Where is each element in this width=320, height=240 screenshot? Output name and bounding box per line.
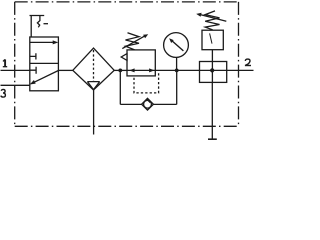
node 3 <box>1 89 6 97</box>
regulator R1 body <box>127 50 155 76</box>
enclosure border <box>15 1 239 3</box>
regulator R1 spring <box>126 33 140 50</box>
wire valve to filter <box>58 69 72 71</box>
block B1 <box>200 62 227 83</box>
valve V1 bottom position exhaust path <box>33 71 58 83</box>
regulator R1 adjustment arrow <box>122 36 145 49</box>
wire port 1 <box>1 69 30 71</box>
wire regulator to block <box>155 69 226 71</box>
node 1 <box>3 59 7 66</box>
wire bypass bottom right <box>153 103 176 105</box>
regulator R1 flow line <box>127 69 155 71</box>
filter F1 separator <box>87 82 99 90</box>
wire branch down from J1 <box>119 70 121 104</box>
wire port 3 <box>1 84 30 86</box>
valve V1 top position flow arrow <box>30 41 55 43</box>
node J1 <box>118 69 122 73</box>
pressure switch S1 stem <box>211 50 213 83</box>
filter F1 drain wire <box>93 90 95 135</box>
valve V1 body <box>30 37 59 91</box>
valve V1 top position blocked port <box>30 53 36 59</box>
gauge G1 <box>164 33 189 58</box>
wire filter to regulator <box>114 69 127 71</box>
exhaust end bar <box>208 138 217 140</box>
drain valve D1 <box>142 98 154 110</box>
pressure switch S1 adjustment arrow <box>201 15 227 21</box>
pressure switch S1 spring <box>205 11 219 30</box>
pressure switch S1 contact <box>210 33 212 43</box>
regulator R1 vent <box>121 54 127 61</box>
node J2 <box>175 69 179 73</box>
node J3 <box>210 68 214 72</box>
filter F1 body <box>73 48 114 90</box>
wire bypass riser <box>176 70 178 104</box>
filter F1 element <box>93 50 95 81</box>
node 2 <box>245 59 251 65</box>
wire bypass bottom left <box>120 103 141 105</box>
valve V1 bottom position blocked port <box>30 67 36 74</box>
gauge G1 stem <box>176 57 178 70</box>
valve V1 detent <box>37 16 40 28</box>
pressure switch S1 body <box>202 30 223 50</box>
block B1 exhaust wire <box>211 82 213 139</box>
wire port 2 <box>227 69 254 71</box>
regulator R1 pilot line <box>134 73 159 93</box>
valve V1 lever actuator <box>30 16 45 38</box>
